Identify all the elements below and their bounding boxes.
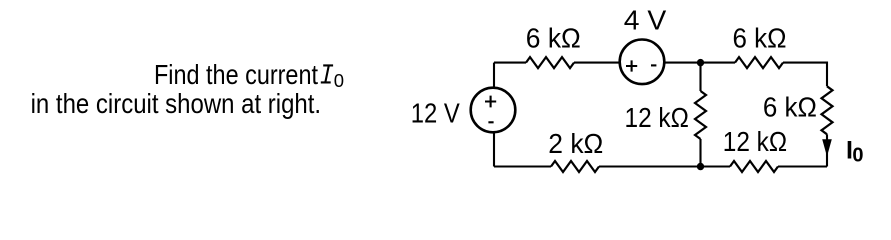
voltage source V1 12V circle <box>471 88 516 133</box>
wire bottom middle to right resistor <box>701 165 731 167</box>
resistor 12k bottom-right <box>730 161 778 172</box>
resistor 6k right vertical <box>822 86 833 134</box>
resistor 6k top-left <box>526 57 574 68</box>
svg-text:12 kΩ: 12 kΩ <box>625 102 689 133</box>
wire right rail below resistor <box>826 134 828 166</box>
wire bottom middle <box>599 165 701 167</box>
wire top right corner <box>783 63 827 87</box>
voltage source V1 plus sign <box>485 96 496 108</box>
wire top left segment <box>494 62 526 64</box>
wire top middle to right resistor <box>701 62 736 64</box>
svg-text:0: 0 <box>334 70 344 91</box>
left rail bottom <box>493 132 495 166</box>
svg-text:6 kΩ: 6 kΩ <box>733 23 787 54</box>
svg-text:in the circuit shown at right.: in the circuit shown at right. <box>31 88 322 119</box>
svg-text:Find the current: Find the current <box>154 59 318 90</box>
left rail top <box>493 63 495 88</box>
svg-text:0: 0 <box>852 145 863 167</box>
voltage source V2 plus sign <box>626 60 637 71</box>
svg-text:4 V: 4 V <box>624 4 667 35</box>
current arrow I0 head <box>822 139 832 156</box>
svg-text:12 V: 12 V <box>411 98 461 129</box>
node junction bottom middle <box>697 163 704 170</box>
wire bottom right segment <box>778 165 827 167</box>
svg-text:12 kΩ: 12 kΩ <box>723 126 787 157</box>
resistor 2k bottom-left <box>551 161 599 172</box>
voltage source V2 4V circle <box>620 40 665 85</box>
resistor 12k middle vertical <box>695 91 706 139</box>
problem text I0 italic <box>321 65 333 82</box>
svg-text:2 kΩ: 2 kΩ <box>548 128 603 159</box>
voltage source V1 minus sign <box>488 121 493 123</box>
middle rail bottom <box>699 139 701 167</box>
wire top left to 4V source <box>574 62 620 64</box>
svg-text:6 kΩ: 6 kΩ <box>526 22 581 53</box>
resistor 6k top-right <box>735 57 783 68</box>
middle rail top <box>699 63 701 91</box>
svg-text:6 kΩ: 6 kΩ <box>763 91 817 122</box>
wire bottom left segment <box>494 165 551 167</box>
node junction top middle <box>697 59 704 66</box>
voltage source V2 minus sign <box>651 64 656 66</box>
wire 4V source to middle node <box>664 62 700 64</box>
